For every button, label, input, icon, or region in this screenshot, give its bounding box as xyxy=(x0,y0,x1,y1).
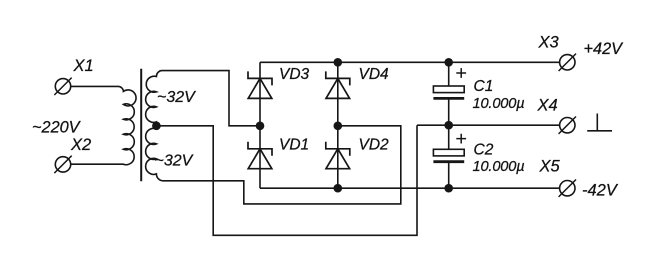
junction dot VD2 bottom xyxy=(334,184,343,193)
wire centre tap to ground net xyxy=(156,125,417,235)
svg-text:X3: X3 xyxy=(538,34,560,52)
svg-text:X2: X2 xyxy=(70,136,91,154)
node A junction dot xyxy=(256,122,265,131)
svg-text:+42V: +42V xyxy=(584,40,625,58)
wire secondary bottom to node B xyxy=(163,126,401,204)
terminal X3 xyxy=(559,54,576,71)
svg-text:10.000µ: 10.000µ xyxy=(473,96,525,112)
svg-text:VD1: VD1 xyxy=(279,136,309,153)
diode VD3 xyxy=(248,62,272,126)
junction dot VD4 top xyxy=(334,58,343,67)
junction dot C1/C2 midpoint xyxy=(444,121,453,130)
diode VD4 xyxy=(326,62,350,126)
centre tap junction dot xyxy=(152,122,161,131)
node B junction dot xyxy=(334,122,343,131)
wire X2 to primary xyxy=(71,163,118,165)
wire -42V rail xyxy=(260,187,560,189)
junction dot C2 bottom xyxy=(444,184,453,193)
diode VD2 xyxy=(326,126,350,188)
svg-text:-42V: -42V xyxy=(582,181,619,199)
svg-text:X4: X4 xyxy=(537,97,558,115)
svg-text:C1: C1 xyxy=(474,78,494,95)
svg-text:X5: X5 xyxy=(539,158,561,176)
transformer T1 primary winding xyxy=(118,86,136,164)
svg-text:10.000µ: 10.000µ xyxy=(473,159,525,175)
wire ground rail xyxy=(417,124,560,126)
transformer secondary upper winding xyxy=(146,71,162,126)
svg-text:~32V: ~32V xyxy=(157,89,196,106)
terminal X5 xyxy=(559,180,576,197)
terminal X1 xyxy=(54,78,71,95)
svg-text:~220V: ~220V xyxy=(32,119,82,137)
transformer secondary lower winding xyxy=(146,126,163,181)
wire X1 to primary xyxy=(71,85,118,87)
svg-text:C2: C2 xyxy=(474,142,494,159)
diode VD1 xyxy=(248,126,272,188)
svg-text:VD4: VD4 xyxy=(359,66,390,83)
capacitor C2 xyxy=(433,125,466,188)
wire +42V rail xyxy=(260,61,560,63)
ground symbol xyxy=(587,114,612,131)
svg-text:VD3: VD3 xyxy=(279,66,310,83)
junction dot C1 top xyxy=(444,58,453,67)
transformer core xyxy=(140,69,142,182)
terminal X2 xyxy=(54,156,71,173)
svg-text:VD2: VD2 xyxy=(359,136,390,153)
terminal X4 xyxy=(559,117,576,134)
capacitor C1 xyxy=(433,62,466,125)
wire secondary top to node A xyxy=(162,71,260,126)
svg-text:X1: X1 xyxy=(73,57,94,75)
svg-text:~32V: ~32V xyxy=(155,152,194,169)
